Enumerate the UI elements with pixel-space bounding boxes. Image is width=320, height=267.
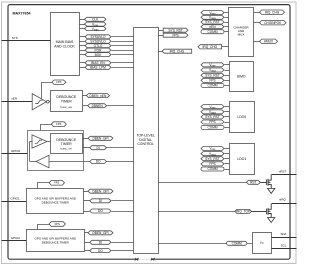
- svg-text:DI: DI: [97, 146, 100, 150]
- flag LDO1 VREF: [201, 147, 224, 152]
- svg-text:DO: DO: [98, 209, 103, 213]
- wire SIMO VBIAS stub: [225, 70, 230, 72]
- svg-text:FPS: FPS: [56, 80, 61, 84]
- wire IRQ_CHG from charger: [222, 46, 229, 48]
- flag SIMO VREF: [201, 63, 224, 68]
- flag IRQ_CHG out: [260, 10, 285, 14]
- wire SYSOVLO to control: [112, 41, 134, 43]
- flag DO gpio1: [90, 209, 111, 213]
- flag IRQ_CHG charger: [198, 45, 222, 49]
- flag LDO0 SYS_RST: [201, 115, 224, 119]
- svg-text:IRQ_CHG: IRQ_CHG: [203, 45, 218, 49]
- wire DO0 to buffer: [50, 161, 90, 163]
- input buffer GPIO0: [32, 135, 47, 148]
- wire DI2 stub: [85, 242, 90, 244]
- wire schmitt to debounce: [50, 101, 51, 103]
- svg-text:nEN: nEN: [209, 25, 216, 29]
- wire DBNEN stub: [83, 105, 88, 107]
- wire SYSOVLO stub: [80, 41, 86, 43]
- wire COMM from control: [159, 243, 253, 245]
- wire nIRQ out: [272, 203, 297, 205]
- flag charger COMM: [201, 30, 224, 34]
- wire LDO0 FPS stub: [225, 122, 230, 124]
- LDO0 block: [230, 102, 255, 133]
- wire DI0 to control: [107, 147, 134, 149]
- wire charger nEN stub: [225, 26, 229, 28]
- flag charger nEN: [201, 25, 224, 29]
- wire gpio0 bus to output buffer: [30, 161, 37, 163]
- wire CHGINPOK out: [254, 22, 260, 24]
- svg-text:SYS_RST: SYS_RST: [205, 73, 220, 77]
- border break mark left: [135, 258, 139, 260]
- wire RST from control: [159, 182, 247, 184]
- svg-text:SIMO: SIMO: [237, 75, 246, 79]
- top-level digital control block: [134, 28, 159, 254]
- flag SIMO FPS: [201, 78, 224, 82]
- wire RST to gate: [261, 182, 267, 184]
- svg-text:SYSOVLO: SYSOVLO: [90, 39, 106, 43]
- flag IRQ_CHG in: [162, 49, 192, 53]
- wire BIAS_LPM stub: [80, 67, 86, 69]
- flag charger SYS_RST: [201, 20, 224, 24]
- wire to VREF flag: [80, 24, 85, 26]
- wire BIAS_EN to control: [112, 62, 134, 64]
- flag DI gpio2: [90, 240, 111, 244]
- svg-text:MAX77654: MAX77654: [13, 12, 31, 16]
- svg-text:DBEN_GPI: DBEN_GPI: [92, 231, 108, 235]
- svg-text:AND CLOCK: AND CLOCK: [54, 44, 75, 48]
- wire LDO0 SYS_RST stub: [225, 116, 230, 118]
- flag DI gpio0: [90, 146, 107, 150]
- wire GPIO2 pin: [2, 240, 27, 242]
- flag DBEN_GPI gpio2: [88, 231, 113, 235]
- svg-text:BIAS_LPM: BIAS_LPM: [90, 65, 106, 69]
- svg-text:IRQ_CHG: IRQ_CHG: [265, 10, 280, 14]
- flag OTLO: [85, 44, 111, 48]
- flag DBEN_GPI gpio0: [88, 136, 113, 140]
- border break mark right: [151, 258, 155, 260]
- flag FPS timer nEN: [52, 80, 66, 84]
- output buffer GPIO0: [36, 155, 49, 167]
- flag SIMO SYS_RST: [201, 73, 224, 77]
- ground symbol Q2: [268, 218, 275, 223]
- flag DBEN_nEN: [86, 94, 109, 98]
- charger and mux block: [229, 8, 254, 57]
- gpio1 buffers block: [27, 189, 84, 214]
- transistor Q2 nIRQ open-drain: [266, 204, 271, 218]
- wire SIMO VREF stub: [225, 64, 230, 66]
- wire IRQ_CHG out: [254, 12, 260, 14]
- wire POR stub: [80, 50, 86, 52]
- I2C block: [253, 233, 272, 254]
- flag LDO1 VBIAS: [201, 152, 224, 157]
- wire IRQ_TOP to gate: [252, 211, 267, 213]
- flag SYSUVLO: [85, 35, 111, 39]
- svg-text:DI: DI: [99, 240, 102, 244]
- wire to VBIAS flag: [80, 28, 85, 30]
- flag CLK: [85, 17, 107, 21]
- gpio2 buffers block: [27, 230, 85, 252]
- svg-text:FPS: FPS: [54, 181, 59, 185]
- flag IRQ_TOP: [235, 209, 252, 213]
- flag SYS_RST out: [163, 28, 188, 32]
- svg-text:nRST: nRST: [279, 170, 287, 174]
- svg-text:CONTROL: CONTROL: [137, 142, 154, 146]
- svg-text:FPS: FPS: [56, 122, 61, 126]
- wire DBEN_GPI1 stub: [84, 191, 89, 193]
- svg-text:FPS: FPS: [209, 120, 215, 124]
- wire GPIO1 pin: [2, 201, 27, 203]
- svg-text:COMM: COMM: [207, 126, 217, 130]
- wire SYS_RST stub: [159, 30, 164, 32]
- svg-text:DEBOUNCE TIMER: DEBOUNCE TIMER: [42, 240, 70, 244]
- svg-text:COMM: COMM: [207, 167, 217, 171]
- svg-text:IRQ_TOP: IRQ_TOP: [236, 210, 250, 214]
- wire DO2 stub: [85, 250, 90, 252]
- svg-text:DEBOUNCE TIMER: DEBOUNCE TIMER: [42, 200, 70, 204]
- flag LDO0 COMM: [201, 125, 224, 129]
- wire LDO1 FPS stub: [225, 163, 230, 165]
- flag POR: [85, 48, 111, 52]
- svg-text:DBEN_nEN: DBEN_nEN: [90, 94, 108, 98]
- flag FPS timer GPIO0: [51, 122, 66, 127]
- svg-text:TIMER: TIMER: [61, 142, 72, 146]
- svg-text:TIMER: TIMER: [61, 99, 72, 103]
- wire DO2 to control: [112, 250, 134, 252]
- svg-text:DBNEN: DBNEN: [92, 104, 104, 108]
- flag BOK: [85, 53, 111, 57]
- wire LDO0 COMM stub: [225, 127, 230, 129]
- wire SIMO FPS stub: [225, 80, 230, 82]
- svg-text:SDA: SDA: [281, 232, 287, 236]
- svg-text:MUX: MUX: [238, 33, 245, 37]
- svg-text:FPS: FPS: [209, 162, 215, 166]
- wire BIAS_LPM to control: [112, 67, 134, 69]
- flag LDO1 COMM: [201, 167, 224, 171]
- ground symbol Q1: [268, 188, 275, 193]
- wire charger SYS_RST stub: [225, 22, 229, 24]
- svg-text:LDO0: LDO0: [237, 115, 246, 119]
- svg-text:DO: DO: [96, 160, 101, 164]
- wire LDO0 VBIAS stub: [225, 111, 230, 113]
- wire GPIO0 pin: [2, 153, 30, 155]
- svg-text:SYS_RST: SYS_RST: [205, 115, 220, 119]
- transistor Q1 nRST open-drain: [266, 175, 271, 189]
- wire DBNEN to control: [107, 105, 134, 107]
- flag BIAS_LPM: [85, 65, 111, 69]
- wire IRQ_CHG in stub: [159, 51, 163, 53]
- svg-text:FPS: FPS: [209, 79, 215, 83]
- svg-text:COMM: COMM: [207, 84, 217, 88]
- wire DO1 stub: [84, 211, 90, 213]
- wire SYS pin: [2, 40, 51, 42]
- flag FPS timer GPIO1: [49, 181, 65, 186]
- wire charger VREF stub: [225, 12, 229, 14]
- wire LDO1 VBIAS stub: [225, 153, 230, 155]
- wire buffer to debounce GPIO0: [48, 141, 51, 143]
- wire gpio0 input bus: [30, 141, 33, 143]
- svg-text:POR: POR: [95, 48, 103, 52]
- debounce timer nEN block: [51, 91, 83, 112]
- wire LDO1 SYS_RST stub: [225, 158, 230, 160]
- wire DI1 stub: [84, 200, 90, 202]
- wire FPS flag elbow GPIO0: [41, 125, 52, 140]
- flag RST: [246, 180, 260, 184]
- wire BOK to control: [112, 54, 134, 56]
- svg-text:CHGINPOK: CHGINPOK: [264, 21, 282, 25]
- wire DBEN_GPI0 stub: [83, 138, 89, 140]
- flag SIMO COMM: [201, 83, 224, 87]
- wire LDO1 VREF stub: [225, 148, 230, 150]
- wire SYSUVLO stub: [80, 36, 86, 38]
- wire charger VBIAS stub: [225, 17, 229, 19]
- wire SDA: [272, 237, 297, 239]
- svg-text:nIRQ: nIRQ: [279, 197, 286, 201]
- svg-text:SCL: SCL: [281, 243, 287, 247]
- LDO1 block: [230, 144, 255, 175]
- svg-text:IRQ_CHG: IRQ_CHG: [170, 49, 185, 53]
- wire BOK stub: [80, 54, 86, 56]
- flag LDO1 FPS: [201, 162, 224, 166]
- svg-text:SYS_RST: SYS_RST: [205, 20, 220, 24]
- wire nEN pin: [2, 101, 33, 103]
- wire FPS flag elbow nEN: [42, 83, 52, 100]
- svg-text:CLK: CLK: [92, 17, 99, 21]
- svg-text:OTLO: OTLO: [94, 44, 103, 48]
- wire DI0 stub: [83, 147, 90, 149]
- flag FPS out: [163, 33, 188, 37]
- bottom border break segment: [139, 257, 151, 261]
- wire DBEN_GPI2 stub: [85, 232, 89, 234]
- wire FPS flag elbow GPIO2: [38, 225, 50, 230]
- svg-text:SYS: SYS: [12, 36, 18, 40]
- wire charger COMM stub: [225, 31, 229, 33]
- wire LDO0 VREF stub: [225, 106, 230, 108]
- wire DO1 to control: [112, 211, 134, 213]
- svg-text:AMUX: AMUX: [264, 39, 274, 43]
- svg-text:RST: RST: [250, 180, 256, 184]
- svg-text:FPS: FPS: [55, 222, 60, 226]
- flag BIAS_EN: [85, 61, 111, 65]
- flag SIMO VBIAS: [201, 68, 224, 73]
- flag VBIAS: [85, 27, 107, 32]
- svg-text:DBEN_GPI: DBEN_GPI: [92, 136, 108, 140]
- flag DO gpio2: [90, 249, 111, 253]
- wire DO0 from control: [107, 161, 134, 163]
- wire SYSUVLO to control: [112, 36, 134, 38]
- flag VREF: [85, 22, 107, 27]
- svg-text:SYSUVLO: SYSUVLO: [90, 35, 106, 39]
- flag LDO0 FPS: [201, 120, 224, 124]
- debounce timer GPIO0 block: [51, 134, 83, 154]
- flag charger VREF: [201, 11, 224, 16]
- flag LDO0 VBIAS: [201, 110, 224, 115]
- svg-text:I2C: I2C: [260, 241, 264, 245]
- svg-text:DI: DI: [99, 199, 102, 203]
- wire DI1 to control: [112, 200, 134, 202]
- wire LDO1 COMM stub: [225, 169, 230, 171]
- svg-text:DBEN_GPI: DBEN_GPI: [92, 189, 108, 193]
- wire BIAS_EN stub: [80, 62, 86, 64]
- flag DBNEN: [88, 104, 107, 108]
- flag SYSOVLO: [85, 39, 111, 43]
- flag CHGINPOK: [260, 21, 287, 25]
- svg-text:nEN: nEN: [11, 97, 17, 101]
- SIMO block: [230, 62, 254, 92]
- wire SIMO SYS_RST stub: [225, 75, 230, 77]
- flag charger VBIAS: [201, 15, 224, 20]
- svg-text:GPIO0: GPIO0: [11, 149, 21, 153]
- wire AMUX out: [254, 41, 260, 43]
- wire IRQ_TOP from control: [159, 211, 235, 213]
- svg-text:BOK: BOK: [95, 53, 103, 57]
- wire SIMO COMM stub: [225, 85, 230, 87]
- wire DI2 to control: [112, 242, 134, 244]
- wire FPS flag elbow GPIO1: [38, 183, 50, 189]
- flag DO gpio0: [90, 160, 107, 164]
- svg-text:SYS_RST: SYS_RST: [205, 157, 220, 161]
- svg-text:GPIO2: GPIO2: [11, 236, 21, 240]
- svg-text:COMM: COMM: [207, 30, 217, 34]
- wire nRST out: [272, 174, 297, 176]
- wire POR to control: [112, 50, 134, 52]
- gpio0 buffer container: [28, 131, 84, 171]
- svg-text:BIAS_EN: BIAS_EN: [91, 61, 105, 65]
- flag DI gpio1: [90, 199, 111, 203]
- flag COMM i2c: [227, 241, 247, 245]
- wire to CLK flag: [80, 19, 85, 21]
- svg-text:SYS_RST: SYS_RST: [168, 28, 183, 32]
- flag LDO1 SYS_RST: [201, 157, 224, 161]
- svg-text:DO: DO: [98, 249, 103, 253]
- wire FPS stub: [159, 35, 164, 37]
- flag AMUX: [260, 39, 278, 43]
- svg-text:LDO1: LDO1: [237, 157, 246, 161]
- wire gpio0 bus vertical: [29, 142, 31, 162]
- flag LDO0 VREF: [201, 105, 224, 110]
- svg-text:GPIO1: GPIO1: [11, 197, 21, 201]
- wire DBEN_nEN stub: [83, 95, 87, 97]
- wire SCL: [272, 248, 297, 250]
- schmitt inverter buffer nEN: [32, 94, 49, 110]
- main bias and clock block: [51, 13, 80, 76]
- wire OTLO to control: [112, 45, 134, 47]
- flag DBEN_GPI gpio1: [88, 189, 113, 193]
- svg-text:COMM: COMM: [232, 241, 242, 245]
- wire OTLO stub: [80, 45, 86, 47]
- svg-text:FPS: FPS: [172, 33, 178, 37]
- flag FPS timer GPIO2: [49, 222, 65, 227]
